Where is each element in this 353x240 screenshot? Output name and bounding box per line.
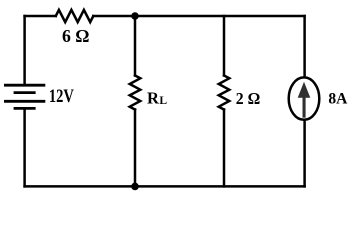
wire top-middle segment	[93, 15, 304, 18]
svg-text:6 Ω: 6 Ω	[62, 26, 90, 46]
node B junction dot bottom	[131, 183, 139, 191]
node A junction dot top	[131, 12, 139, 20]
svg-text:2 Ω: 2 Ω	[236, 89, 260, 108]
battery V1 short plate 4	[15, 107, 34, 110]
battery V1 12V plate long top	[5, 84, 44, 87]
svg-text:8A: 8A	[328, 90, 347, 107]
wire right rail lower	[303, 121, 306, 187]
svg-text:12V: 12V	[49, 86, 74, 107]
wire 2-ohm branch upper	[223, 16, 226, 76]
resistor R1 6 ohm (horizontal zigzag)	[56, 10, 94, 22]
battery V1 short plate 2	[15, 91, 34, 94]
wire right rail upper	[303, 16, 306, 77]
resistor R2 2 ohm (vertical zigzag)	[219, 76, 230, 110]
current source I1 ellipse body	[289, 77, 320, 119]
wire left rail upper	[23, 16, 26, 85]
wire 2-ohm branch lower	[223, 110, 226, 187]
wire RL branch upper	[134, 16, 137, 76]
battery V1 long plate 3	[5, 100, 44, 103]
svg-text:L: L	[159, 95, 167, 107]
wire bottom rail	[25, 185, 305, 188]
wire top-left segment	[25, 15, 56, 18]
resistor RL (vertical zigzag)	[130, 76, 141, 110]
wire left rail lower	[23, 108, 26, 186]
current source I1 arrow	[298, 82, 311, 118]
svg-text:R: R	[147, 88, 160, 107]
wire RL branch lower	[134, 110, 137, 187]
